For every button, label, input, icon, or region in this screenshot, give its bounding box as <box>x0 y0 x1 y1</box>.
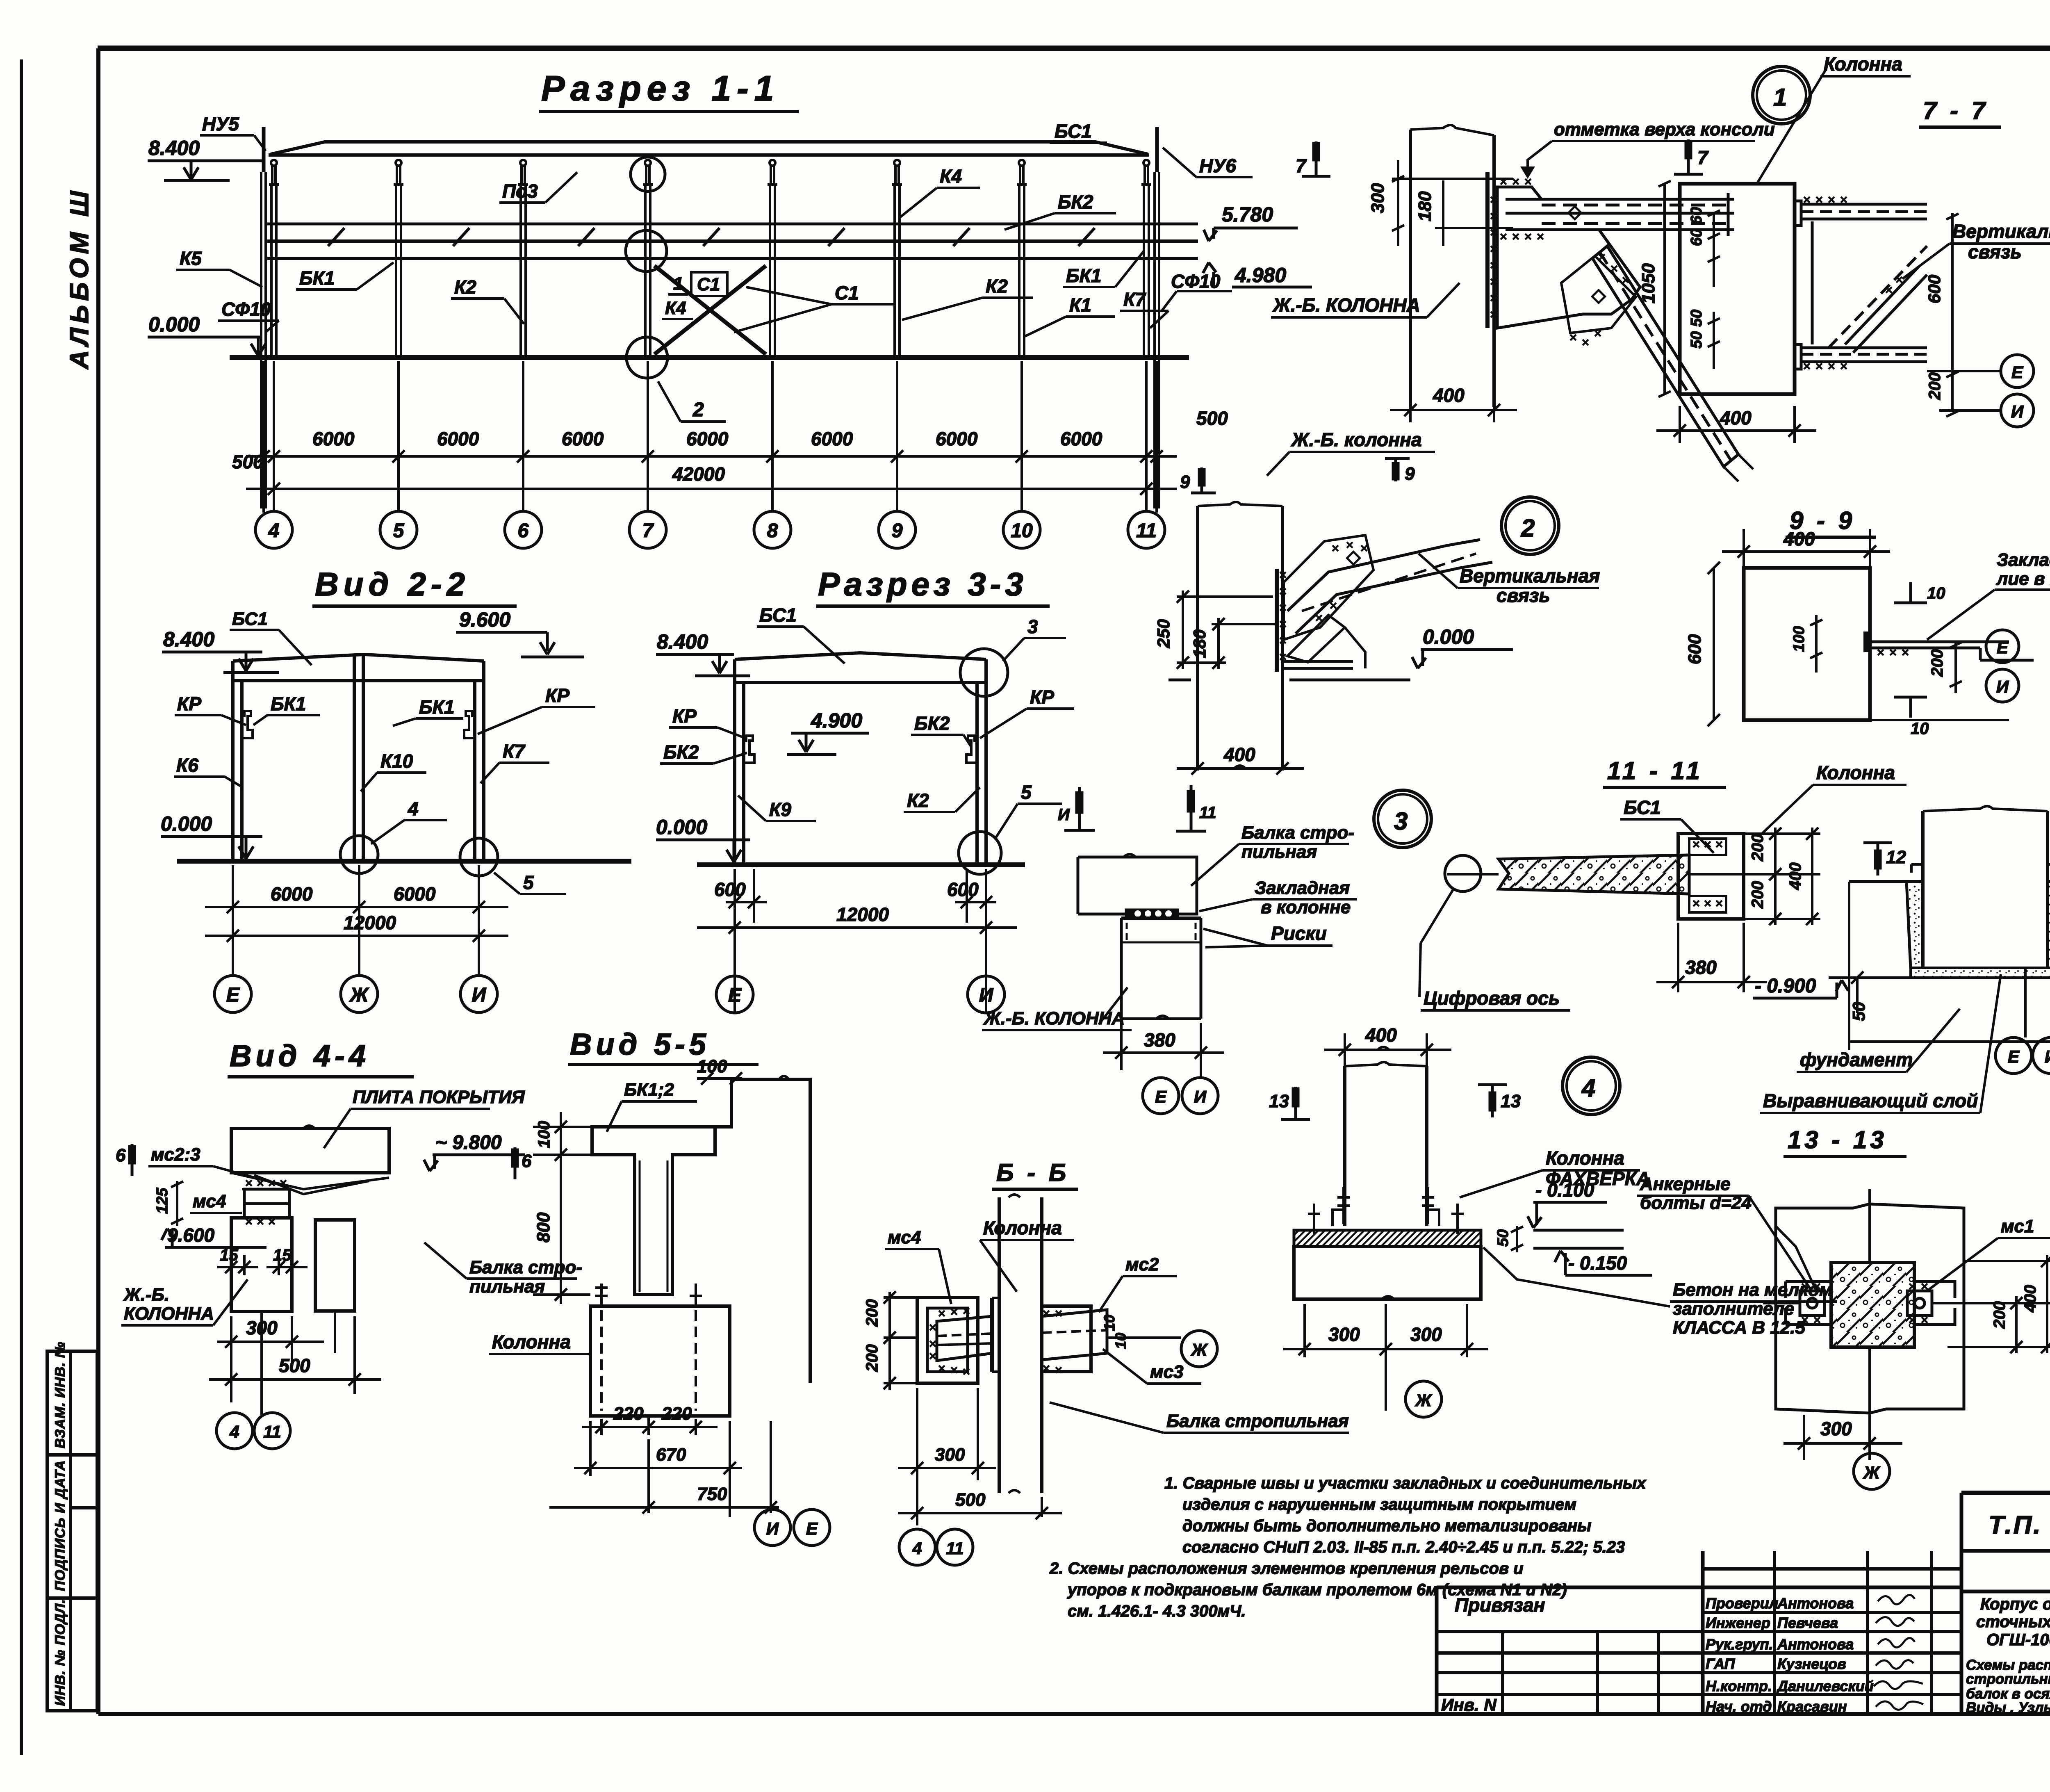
svg-text:400: 400 <box>1433 385 1465 406</box>
svg-text:Разрез 1-1: Разрез 1-1 <box>541 69 780 108</box>
svg-text:500: 500 <box>1196 408 1228 429</box>
E I circles <box>2001 355 2034 388</box>
svg-text:300: 300 <box>1410 1324 1442 1345</box>
svg-text:500: 500 <box>232 451 264 472</box>
svg-text:13: 13 <box>1501 1091 1521 1111</box>
svg-text:4.980: 4.980 <box>1235 264 1286 287</box>
svg-text:11: 11 <box>1136 520 1157 542</box>
bolts on column top <box>595 1284 608 1306</box>
svg-text:ПЛИТА ПОКРЫТИЯ: ПЛИТА ПОКРЫТИЯ <box>353 1087 525 1107</box>
svg-text:С1: С1 <box>697 274 720 294</box>
dims <box>1390 160 1517 422</box>
svg-text:К2: К2 <box>907 790 929 811</box>
svg-text:Б - Б: Б - Б <box>996 1159 1069 1186</box>
svg-text:КОЛОННА: КОЛОННА <box>124 1304 214 1324</box>
svg-text:200: 200 <box>1749 834 1767 862</box>
detail circles on axis 7 <box>626 157 667 378</box>
50 dim <box>1829 882 2050 1050</box>
svg-text:400: 400 <box>1783 528 1815 549</box>
svg-text:7 - 7: 7 - 7 <box>1923 97 1988 124</box>
50 dim <box>1511 1226 1523 1252</box>
left column <box>231 681 235 861</box>
svg-text:400: 400 <box>1365 1024 1397 1046</box>
svg-text:11 - 11: 11 - 11 <box>1607 757 1703 784</box>
svg-text:БК1: БК1 <box>1066 265 1101 286</box>
svg-text:БС1: БС1 <box>759 604 797 626</box>
svg-text:К2: К2 <box>454 276 476 298</box>
central hatched square <box>1831 1263 1914 1347</box>
dims <box>697 869 1017 1013</box>
column cut top right <box>715 1079 810 1383</box>
cup outline <box>1906 882 2050 968</box>
svg-text:1. Сварные швы и участки закла: 1. Сварные швы и участки закладных и сое… <box>1164 1474 1647 1492</box>
top dim line <box>1392 178 1513 180</box>
svg-text:10: 10 <box>1011 520 1033 542</box>
svg-text:4: 4 <box>1581 1074 1595 1102</box>
svg-text:согласно СНиП 2.03. II-85 п.: согласно СНиП 2.03. II-85 п.п. 2.40÷2.45… <box>1182 1538 1625 1556</box>
right part <box>1961 1590 2050 1594</box>
gusset + beam <box>1497 187 1753 481</box>
svg-text:Ж.-Б.: Ж.-Б. <box>123 1285 169 1305</box>
svg-text:11: 11 <box>946 1539 964 1558</box>
svg-text:И: И <box>1194 1087 1207 1106</box>
bottom dim 400 <box>1177 762 1304 775</box>
svg-text:180: 180 <box>1415 191 1435 221</box>
dims 600 100 <box>1708 562 1822 726</box>
svg-text:500: 500 <box>955 1490 986 1510</box>
svg-text:стропильных и подкрановых: стропильных и подкрановых <box>1966 1671 2050 1687</box>
svg-text:Вид 2-2: Вид 2-2 <box>315 566 470 602</box>
svg-text:Е: Е <box>1155 1087 1167 1106</box>
svg-text:100: 100 <box>1790 626 1808 652</box>
125 dim <box>171 1181 183 1226</box>
svg-text:К2: К2 <box>986 276 1008 297</box>
svg-text:Ж.-Б. колонна: Ж.-Б. колонна <box>1291 429 1422 450</box>
Zh circle <box>1854 1453 1890 1489</box>
svg-text:6000: 6000 <box>271 883 313 905</box>
svg-text:ГАП: ГАП <box>1706 1655 1735 1672</box>
svg-text:- 0.150: - 0.150 <box>1568 1252 1627 1274</box>
svg-text:200: 200 <box>1749 881 1767 909</box>
elevations <box>161 632 584 859</box>
elevation 8.400 <box>148 161 262 180</box>
labels <box>663 604 1054 820</box>
roof beam BS1 band <box>271 142 1148 154</box>
column body <box>590 1306 730 1416</box>
dims 200 200 400 right <box>1744 828 1820 925</box>
svg-text:5: 5 <box>393 520 405 542</box>
C1 box on beam <box>691 272 727 296</box>
svg-text:И: И <box>1058 806 1070 824</box>
svg-text:4.900: 4.900 <box>811 709 862 732</box>
svg-text:БК1;2: БК1;2 <box>624 1080 674 1100</box>
console details <box>242 711 253 738</box>
svg-text:- 0.900: - 0.900 <box>1755 975 1816 997</box>
dims <box>1656 181 1816 443</box>
svg-text:8.400: 8.400 <box>657 630 708 653</box>
frame top <box>98 46 2050 51</box>
svg-text:50: 50 <box>1494 1229 1512 1247</box>
300 dim bottom <box>1783 1415 1902 1460</box>
top break squiggle <box>1410 125 1494 135</box>
center column K10 <box>353 654 356 861</box>
svg-text:И: И <box>2045 1047 2050 1066</box>
svg-text:ПОДПИСЬ И ДАТА: ПОДПИСЬ И ДАТА <box>52 1460 68 1591</box>
sheet outer edge left <box>20 59 23 1755</box>
svg-text:5: 5 <box>523 872 534 893</box>
svg-text:10: 10 <box>1112 1333 1129 1349</box>
svg-text:Виды . Узлы.: Виды . Узлы. <box>1966 1700 2050 1716</box>
svg-text:Проверил: Проверил <box>1706 1595 1778 1612</box>
svg-text:Певчева: Певчева <box>1777 1614 1838 1631</box>
svg-text:ИНВ. № ПОДЛ.: ИНВ. № ПОДЛ. <box>52 1599 68 1706</box>
column shaft <box>1849 806 2050 978</box>
svg-text:Н.контр.: Н.контр. <box>1706 1678 1772 1694</box>
svg-text:должны быть дополнительно м: должны быть дополнительно метализированы <box>1182 1517 1591 1535</box>
beam right (balka stropilnaya) <box>315 1220 355 1353</box>
svg-text:10: 10 <box>1101 1315 1118 1331</box>
small hatched pads top/bottom <box>1689 839 1726 855</box>
svg-text:Вид 4-4: Вид 4-4 <box>230 1039 370 1073</box>
svg-text:7: 7 <box>1296 155 1307 176</box>
svg-text:Инв. N: Инв. N <box>1441 1695 1497 1714</box>
small diamonds <box>1568 206 1581 219</box>
project description <box>1976 1595 2050 1649</box>
side plates <box>1786 1281 1955 1325</box>
base angles <box>1332 1210 1439 1226</box>
svg-text:200: 200 <box>863 1299 881 1327</box>
svg-text:Вид 5-5: Вид 5-5 <box>570 1027 710 1061</box>
svg-text:Закладная: Закладная <box>1255 878 1350 898</box>
svg-text:Колонна: Колонна <box>983 1217 1062 1238</box>
svg-text:6: 6 <box>522 1151 532 1171</box>
dims left 100 800 <box>533 1112 633 1304</box>
detail circles 4 and 5 <box>340 836 498 876</box>
svg-text:300: 300 <box>246 1317 278 1338</box>
svg-text:мс2: мс2 <box>1125 1254 1159 1274</box>
svg-text:2: 2 <box>1521 514 1535 542</box>
column <box>231 1218 292 1415</box>
svg-text:ВЗАМ. ИНВ. №: ВЗАМ. ИНВ. № <box>52 1341 68 1448</box>
svg-text:Привязан: Привязан <box>1455 1594 1545 1616</box>
cup walls hatched <box>1906 882 1923 968</box>
svg-text:6: 6 <box>116 1145 126 1165</box>
svg-text:К4: К4 <box>940 166 962 187</box>
svg-text:200: 200 <box>1926 372 1944 400</box>
svg-text:4: 4 <box>229 1422 239 1441</box>
svg-text:250: 250 <box>1154 619 1173 648</box>
svg-text:0.000: 0.000 <box>656 816 707 839</box>
svg-text:3: 3 <box>1394 807 1408 835</box>
svg-text:10: 10 <box>1911 720 1929 738</box>
frame left <box>96 48 100 1714</box>
svg-text:9: 9 <box>1180 472 1190 492</box>
svg-text:К10: К10 <box>380 750 413 772</box>
svg-text:отметка верха консоли: отметка верха консоли <box>1554 119 1775 139</box>
E I circles <box>1995 1037 2032 1074</box>
tapered beam in plan <box>937 1316 992 1361</box>
svg-text:6000: 6000 <box>811 428 853 449</box>
embedded plate right middle <box>1863 632 1870 652</box>
section mark 7 left <box>1302 141 1330 176</box>
column <box>1198 502 1282 771</box>
svg-text:Ж.-Б. КОЛОННА: Ж.-Б. КОЛОННА <box>1272 294 1420 316</box>
anchor bolts <box>1308 1187 1464 1234</box>
ground <box>177 859 631 864</box>
svg-text:0.000: 0.000 <box>1423 625 1474 648</box>
privyazan box <box>1437 1586 1961 1589</box>
column rect <box>1680 184 1795 394</box>
svg-text:380: 380 <box>1144 1029 1175 1051</box>
middle columns <box>1701 1551 1705 1714</box>
labels on razrez 1-1 <box>180 113 1236 320</box>
svg-text:БК2: БК2 <box>1058 191 1093 212</box>
svg-text:КР: КР <box>672 705 697 727</box>
Zh circle <box>1405 1381 1442 1417</box>
svg-text:мс4: мс4 <box>888 1227 921 1247</box>
svg-text:800: 800 <box>533 1212 553 1243</box>
svg-text:1: 1 <box>1773 84 1787 111</box>
svg-text:50 50: 50 50 <box>1688 310 1705 349</box>
right column <box>473 681 476 861</box>
foundation block <box>1294 1247 1481 1299</box>
svg-text:- 0.100: - 0.100 <box>1535 1179 1594 1201</box>
svg-text:220: 220 <box>661 1404 692 1424</box>
signatures squiggles <box>1874 1595 1923 1710</box>
svg-text:0.000: 0.000 <box>161 812 212 835</box>
svg-text:сточных вод с 5центрифугами: сточных вод с 5центрифугами <box>1976 1613 2050 1631</box>
section mark 9 left <box>1191 467 1216 493</box>
elevation 5.780 right <box>1204 228 1298 241</box>
svg-text:4: 4 <box>268 520 280 542</box>
roof slab band <box>233 654 484 661</box>
svg-text:Ж: Ж <box>1191 1340 1208 1359</box>
ground line <box>230 355 1189 360</box>
svg-text:БС1: БС1 <box>1055 121 1092 142</box>
slab rect <box>231 1129 389 1173</box>
svg-text:По3: По3 <box>502 180 538 202</box>
svg-text:И: И <box>1996 677 2009 696</box>
bedding hatched strip <box>1294 1230 1481 1247</box>
left stamp boxes <box>47 1351 97 1711</box>
section 10 marks <box>1894 582 1927 718</box>
frame bottom <box>98 1712 2050 1716</box>
notches at top <box>1911 863 2050 866</box>
svg-text:3: 3 <box>1027 616 1038 637</box>
svg-text:Колонна: Колонна <box>1546 1147 1624 1169</box>
svg-text:НУ6: НУ6 <box>1199 155 1236 176</box>
svg-text:400: 400 <box>1223 744 1255 765</box>
svg-text:10: 10 <box>1927 584 1945 602</box>
svg-text:БК2: БК2 <box>914 713 950 734</box>
crane rail line <box>267 223 1198 226</box>
column verticals <box>1392 125 1513 407</box>
svg-text:Разрез 3-3: Разрез 3-3 <box>818 566 1027 602</box>
svg-text:Балка стропильная: Балка стропильная <box>1166 1411 1349 1431</box>
svg-text:БК1: БК1 <box>419 696 454 718</box>
svg-text:И: И <box>2011 402 2024 421</box>
svg-text:6: 6 <box>518 520 529 542</box>
svg-text:5: 5 <box>1021 782 1032 803</box>
svg-text:К7: К7 <box>503 741 526 762</box>
svg-text:Балка стро-: Балка стро- <box>469 1257 582 1277</box>
svg-text:И: И <box>979 985 994 1006</box>
svg-text:4: 4 <box>408 798 419 819</box>
svg-text:Цифровая ось: Цифровая ось <box>1424 987 1560 1009</box>
svg-text:Е: Е <box>2011 363 2024 382</box>
svg-text:7: 7 <box>642 520 654 542</box>
svg-text:600: 600 <box>1925 275 1944 303</box>
svg-text:8.400: 8.400 <box>163 628 214 651</box>
svg-text:АЛЬБОМ Ш: АЛЬБОМ Ш <box>64 187 94 370</box>
beam outline <box>1078 854 1201 1019</box>
ms4 square left <box>917 1297 978 1383</box>
svg-text:0.000: 0.000 <box>148 313 200 336</box>
380 dim <box>1103 1023 1224 1070</box>
300 300 dims <box>1283 1304 1488 1411</box>
svg-text:БС1: БС1 <box>232 609 268 629</box>
svg-text:Вертикальная: Вертикальная <box>1952 221 2050 242</box>
rail pads diagonal marks <box>328 228 344 246</box>
dim 380 bottom <box>1656 923 1767 992</box>
svg-text:С1: С1 <box>835 282 859 303</box>
svg-text:фундамент: фундамент <box>1800 1049 1913 1070</box>
svg-text:15: 15 <box>273 1246 292 1264</box>
svg-text:И: И <box>766 1519 779 1538</box>
svg-text:К6: К6 <box>176 755 198 776</box>
300 500 dims bottom <box>898 1388 1062 1525</box>
svg-text:ОГШ-1001. -01: ОГШ-1001. -01 <box>1986 1631 2050 1649</box>
svg-text:К1: К1 <box>1069 294 1091 316</box>
embedded plate right face <box>1275 569 1279 672</box>
svg-text:400: 400 <box>1786 862 1804 890</box>
svg-text:Кузнецов: Кузнецов <box>1777 1655 1846 1672</box>
200 dim + E I circles <box>1870 642 2009 720</box>
svg-text:Выравнивающий слой: Выравнивающий слой <box>1763 1090 1978 1111</box>
svg-text:Е: Е <box>806 1519 818 1538</box>
svg-text:Антонова: Антонова <box>1777 1636 1854 1653</box>
svg-text:300: 300 <box>1328 1324 1360 1345</box>
circle mark 2 <box>1501 497 1559 554</box>
svg-text:670: 670 <box>656 1445 686 1465</box>
weld x marks <box>1491 179 1629 345</box>
svg-text:400: 400 <box>1720 407 1752 429</box>
section 13 marks <box>1281 1085 1507 1119</box>
svg-text:лие в колонне: лие в колонне <box>1996 569 2050 589</box>
E I circles below <box>1200 1070 1202 1078</box>
bearing pad <box>1126 910 1178 917</box>
svg-text:1: 1 <box>673 274 683 294</box>
svg-text:БК1: БК1 <box>271 693 306 714</box>
section 12 marks <box>1863 841 2050 875</box>
elevation 0.000 <box>148 337 266 356</box>
column band <box>992 1195 1042 1493</box>
svg-text:Ж: Ж <box>1863 1463 1881 1482</box>
svg-text:380: 380 <box>1685 957 1717 978</box>
svg-text:мс2:3: мс2:3 <box>151 1145 200 1165</box>
elevation 4.980 right <box>1203 262 1312 287</box>
Zh circle right <box>1181 1331 1217 1367</box>
section mark I <box>1064 787 1095 830</box>
svg-text:600: 600 <box>947 879 979 900</box>
svg-text:8: 8 <box>767 520 778 542</box>
BS1 beam hatched, tapered left <box>1499 855 1689 894</box>
200 200 dims left <box>884 1291 918 1390</box>
svg-text:К4: К4 <box>665 298 686 318</box>
axis circles 4..11 <box>255 511 1165 548</box>
42000 line <box>246 488 1177 490</box>
crane beam band <box>267 239 1198 243</box>
embedded plate on right face <box>1485 172 1490 328</box>
svg-text:Ж: Ж <box>1415 1391 1433 1410</box>
stamp vertical texts <box>52 1341 68 1706</box>
svg-text:42000: 42000 <box>672 463 725 485</box>
svg-text:Антонова: Антонова <box>1777 1595 1854 1612</box>
svg-text:300: 300 <box>1820 1418 1852 1439</box>
svg-text:9: 9 <box>1405 464 1415 484</box>
top brace attach <box>1795 201 1927 369</box>
400 dim top <box>1324 1033 1451 1066</box>
svg-text:6000: 6000 <box>1060 428 1102 449</box>
svg-text:КР: КР <box>177 693 201 714</box>
svg-text:200: 200 <box>863 1344 881 1372</box>
svg-text:КР: КР <box>545 685 569 706</box>
svg-text:1050: 1050 <box>1638 263 1658 303</box>
svg-text:БК1: БК1 <box>299 267 335 289</box>
svg-text:изделия с нарушенным защитн: изделия с нарушенным защитным покрытием <box>1182 1496 1576 1514</box>
svg-text:6000: 6000 <box>936 428 978 449</box>
right plate мс2/мс3 tapered <box>1042 1306 1107 1372</box>
svg-text:6000: 6000 <box>562 428 604 449</box>
svg-text:Красавин: Красавин <box>1777 1698 1847 1715</box>
axis circles E Zh I <box>214 976 497 1012</box>
svg-text:60 60: 60 60 <box>1688 207 1705 246</box>
svg-text:5.780: 5.780 <box>1222 203 1273 226</box>
svg-text:Т.П. 902-5-47.87: Т.П. 902-5-47.87 <box>1988 1511 2050 1539</box>
svg-text:Нач. отд: Нач. отд <box>1706 1698 1772 1715</box>
svg-text:Рук.груп.: Рук.груп. <box>1706 1636 1773 1653</box>
album text left margin <box>64 187 94 370</box>
svg-text:Закладное изде-: Закладное изде- <box>1997 550 2050 570</box>
svg-text:12000: 12000 <box>836 904 889 925</box>
svg-text:КР: КР <box>1030 686 1054 708</box>
svg-text:6000: 6000 <box>312 428 355 449</box>
brace diagonal up-right <box>1284 535 1492 668</box>
section mark 7 right <box>1674 139 1703 174</box>
elevations <box>656 654 869 862</box>
I E circles <box>754 1509 790 1546</box>
circles 4 11 <box>899 1529 935 1565</box>
beam T profile <box>590 1076 810 1416</box>
svg-text:13 - 13: 13 - 13 <box>1788 1126 1887 1154</box>
circle mark 3 <box>1374 790 1431 848</box>
svg-text:мс1: мс1 <box>2001 1216 2034 1236</box>
svg-text:Риски: Риски <box>1271 923 1327 944</box>
section mark 9 right <box>1385 457 1410 481</box>
dims 400 200 <box>1947 1255 2050 1353</box>
svg-text:К9: К9 <box>769 799 791 820</box>
svg-text:200: 200 <box>1928 649 1946 677</box>
svg-text:12000: 12000 <box>344 912 396 933</box>
svg-text:Вертикальная: Вертикальная <box>1460 565 1600 586</box>
axis lines <box>1763 1302 1800 1304</box>
bearing: wedge lines from slab to column <box>231 1173 389 1218</box>
column below <box>1120 918 1123 1019</box>
svg-text:8.400: 8.400 <box>148 137 200 160</box>
dims 300 500 <box>209 1316 381 1402</box>
svg-text:Е: Е <box>2008 1047 2020 1066</box>
svg-text:СФ10: СФ10 <box>221 299 271 320</box>
